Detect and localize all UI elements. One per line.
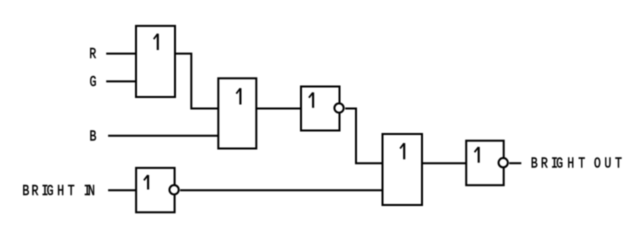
svg-text:R: R <box>541 155 548 172</box>
svg-text:R: R <box>32 183 39 200</box>
svg-text:G: G <box>556 155 563 172</box>
svg-text:G: G <box>47 183 54 200</box>
svg-text:T: T <box>578 155 585 172</box>
svg-text:T: T <box>615 155 622 172</box>
svg-text:U: U <box>604 155 611 172</box>
svg-text:N: N <box>88 183 95 200</box>
svg-text:B: B <box>531 155 538 172</box>
svg-text:B: B <box>89 128 96 145</box>
svg-text:B: B <box>22 183 29 200</box>
svg-text:T: T <box>68 183 75 200</box>
svg-text:O: O <box>594 155 601 172</box>
svg-text:H: H <box>57 183 64 200</box>
svg-text:G: G <box>90 74 97 91</box>
svg-text:H: H <box>567 155 574 172</box>
svg-text:R: R <box>89 46 96 63</box>
